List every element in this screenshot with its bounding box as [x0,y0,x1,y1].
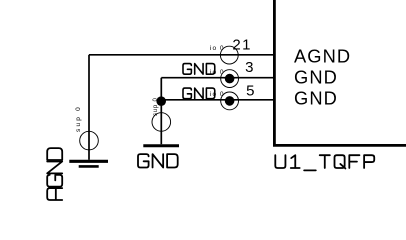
pin 3 wire (net GND horizontal) [161,77,274,79]
svg-text:GND: GND [294,66,338,87]
label GND (under ground bar, vector font) [138,154,178,167]
svg-text:5: 5 [246,83,254,100]
svg-text:io 0: io 0 [210,69,224,76]
ground AGND bar 2 [79,165,99,168]
pin 21 wire (net AGND horizontal) [89,54,274,56]
pin 5 circle [221,92,239,110]
wire net GND vertical [160,78,162,145]
ground AGND bar 1 [69,160,108,163]
pin 21 circle [220,46,238,64]
svg-text:3: 3 [245,59,253,76]
ground GND bar [143,144,179,147]
svg-text:io 0: io 0 [210,45,224,52]
net label GND (pin 5 wire, vector font) [183,88,215,99]
supply symbol SUP2 circle (GND branch) [152,113,171,132]
svg-text:AGND: AGND [294,45,351,66]
svg-text:GND: GND [294,88,338,109]
wire net AGND vertical [88,55,90,160]
net label GND (pin 3 wire, vector font) [183,64,215,75]
IC U1 symbol outline (left and bottom border) [274,0,406,145]
junction dot pin 5 [225,96,235,106]
label AGND (rotated, vector font) [47,148,62,200]
svg-text:21: 21 [232,37,252,54]
svg-text:io 0: io 0 [210,91,224,98]
svg-text:sup 0: sup 0 [75,105,82,132]
pin 3 circle [221,70,239,88]
pin 5 wire (net GND horizontal) [161,99,274,101]
junction dot GND branch [156,96,166,106]
part name U1_TQFP (vector font) [275,155,374,170]
supply symbol SUP1 circle (AGND branch) [80,131,99,150]
junction dot pin 3 [225,74,235,84]
svg-text:sup 0: sup 0 [153,97,159,116]
